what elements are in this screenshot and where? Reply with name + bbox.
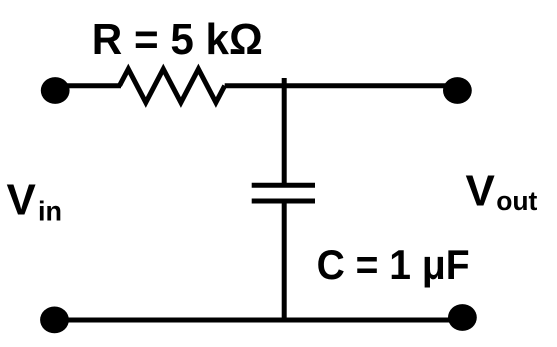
svg-text:in: in (38, 195, 62, 226)
svg-text:out: out (496, 186, 537, 216)
wire bottom rail (55, 318, 463, 323)
terminal dot bottom-left (Vin -) (40, 307, 69, 334)
terminal dot top-right (Vout +) (443, 77, 472, 104)
terminal dot top-left (Vin +) (41, 77, 70, 104)
capacitor C top plate (252, 183, 315, 188)
terminal dot bottom-right (Vout -) (448, 304, 477, 331)
wire vertical upper segment (top node to capacitor) (282, 78, 287, 185)
svg-text:V: V (466, 167, 496, 216)
wire top-left segment (Vin terminal to resistor) (55, 83, 121, 88)
svg-text:C = 1 μF: C = 1 μF (317, 241, 470, 288)
capacitor C bottom plate (252, 199, 315, 204)
svg-text:V: V (7, 175, 37, 224)
svg-text:R = 5 kΩ: R = 5 kΩ (92, 15, 263, 64)
wire top-right segment (resistor to Vout terminal) (225, 83, 458, 88)
resistor R = 5 kOhm zigzag (120, 69, 225, 103)
wire vertical lower segment (capacitor to bottom rail) (282, 201, 287, 320)
